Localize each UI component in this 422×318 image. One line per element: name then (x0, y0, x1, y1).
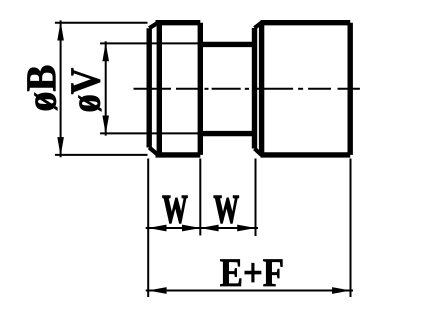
svg-text:W: W (162, 188, 188, 232)
svg-text:W: W (214, 188, 240, 232)
svg-text:øB: øB (18, 65, 65, 112)
svg-text:E+F: E+F (220, 252, 284, 296)
svg-text:øV: øV (62, 68, 109, 113)
